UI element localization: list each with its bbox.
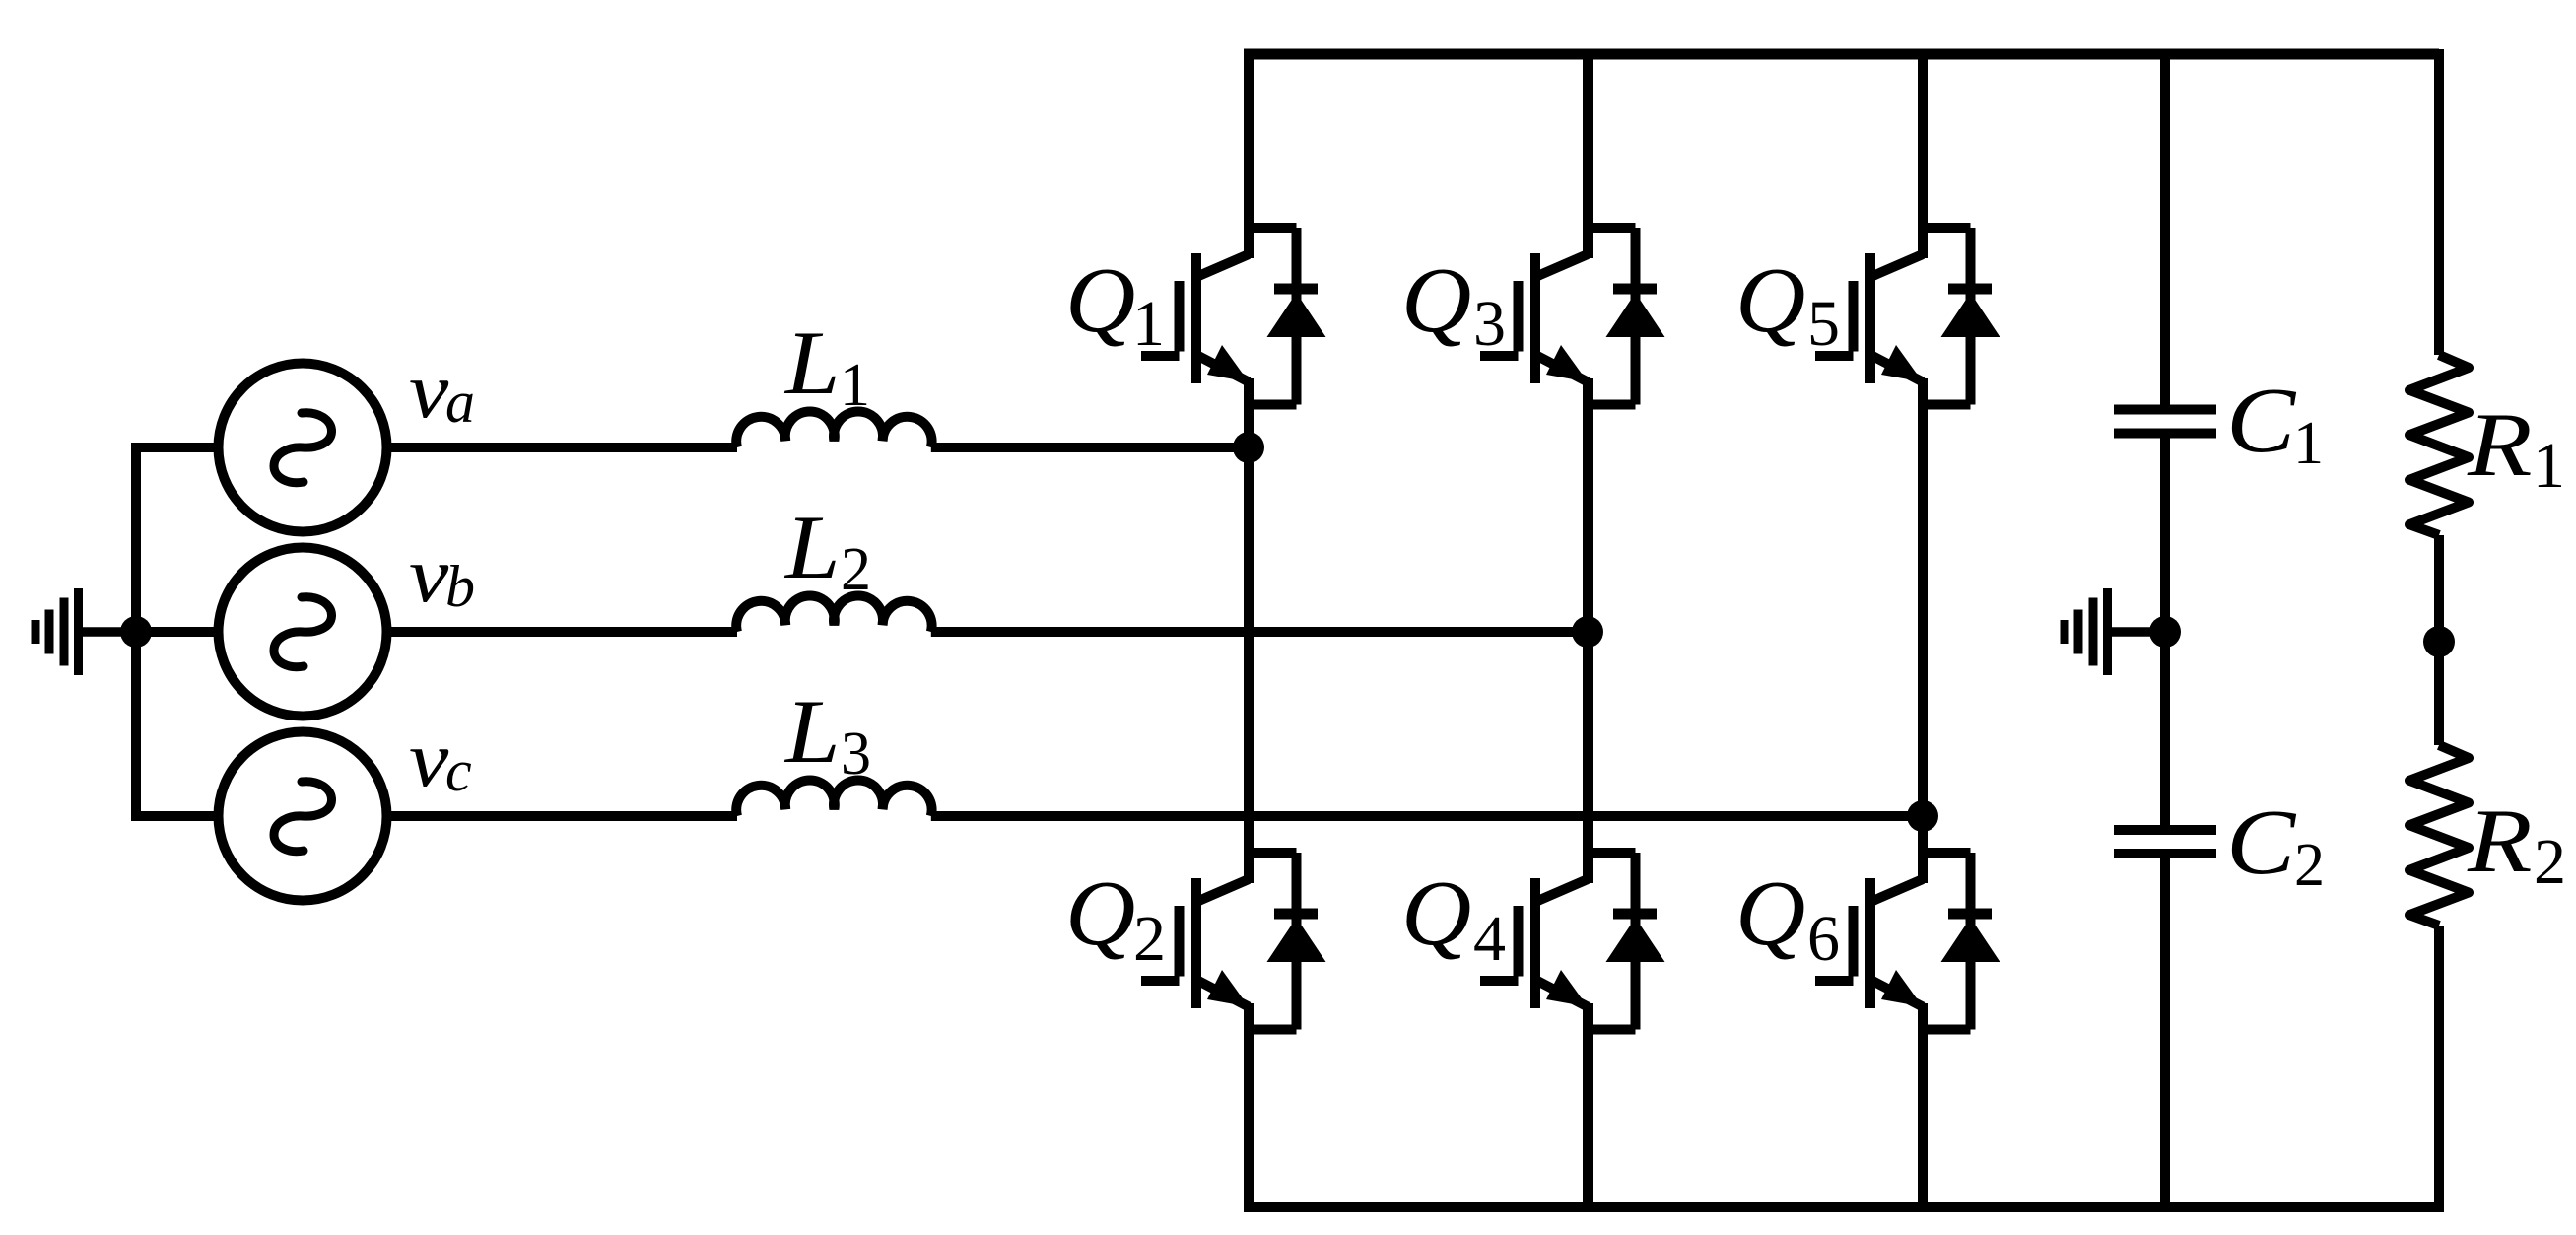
source vb (AC voltage source) <box>219 548 387 717</box>
node A (phase a junction dot) <box>1233 432 1264 463</box>
wire leg2 mid (Q3 emitter to Q4 collector) <box>1583 378 1593 883</box>
inductor L1 <box>736 412 931 447</box>
svg-text:5: 5 <box>1807 288 1840 360</box>
wire top DC bus <box>1244 49 2439 60</box>
resistor R2 <box>2409 745 2469 926</box>
svg-text:L: L <box>783 312 841 414</box>
transistor Q1 (IGBT with antiparallel diode) <box>1141 228 1326 405</box>
svg-text:Q: Q <box>1401 248 1471 351</box>
svg-text:2: 2 <box>1133 903 1166 975</box>
label R2 <box>2467 790 2566 898</box>
node N (neutral junction dot) <box>120 616 152 648</box>
wire left neutral bus with stubs to va and vc <box>136 447 222 816</box>
wire L2 to node B <box>931 627 1588 637</box>
svg-text:1: 1 <box>2293 410 2324 477</box>
resistor R1 <box>2409 355 2469 535</box>
label C1 <box>2226 369 2324 477</box>
label Q6 <box>1735 861 1840 975</box>
node D (load midpoint dot) <box>2423 626 2455 657</box>
svg-text:1: 1 <box>2533 430 2565 502</box>
node M (capacitor midpoint dot) <box>2149 616 2181 648</box>
wire L1 to node A <box>931 443 1249 452</box>
svg-text:v: v <box>409 529 449 618</box>
svg-text:Q: Q <box>1735 861 1805 964</box>
inductor L3 <box>736 781 931 816</box>
wire bottom DC bus <box>1244 1202 2439 1212</box>
svg-text:C: C <box>2226 790 2297 894</box>
wire leg3 bottom (Q6 emitter to bus) <box>1918 1003 1928 1212</box>
transistor Q2 (IGBT with antiparallel diode) <box>1141 853 1326 1030</box>
inductor L2 <box>736 596 931 632</box>
capacitor C1 <box>2114 410 2216 434</box>
wire leg3 mid (Q5 emitter to Q6 collector) <box>1918 378 1928 883</box>
svg-text:L: L <box>783 681 841 783</box>
label C2 <box>2226 790 2325 899</box>
svg-text:1: 1 <box>840 352 870 419</box>
wire leg3 collector (bus to Q5) <box>1918 49 1928 258</box>
transistor Q5 (IGBT with antiparallel diode) <box>1815 228 2000 405</box>
svg-text:4: 4 <box>1473 903 1506 975</box>
wire vb to L2 <box>384 627 737 637</box>
transistor Q3 (IGBT with antiparallel diode) <box>1480 228 1665 405</box>
label Q1 <box>1065 248 1165 360</box>
wire leg1 collector (bus to Q1) <box>1244 49 1254 258</box>
svg-text:Q: Q <box>1401 861 1471 964</box>
svg-text:6: 6 <box>1807 903 1840 975</box>
svg-text:R: R <box>2467 394 2533 495</box>
svg-text:Q: Q <box>1065 248 1135 351</box>
svg-text:v: v <box>409 714 449 802</box>
svg-text:L: L <box>783 497 841 598</box>
svg-text:2: 2 <box>841 536 871 603</box>
svg-text:b: b <box>445 554 475 619</box>
wire DC-link capacitor branch top <box>2160 49 2170 405</box>
wire leg2 bottom (Q4 emitter to bus) <box>1583 1003 1593 1212</box>
transistor Q6 (IGBT with antiparallel diode) <box>1815 853 2000 1030</box>
transistor Q4 (IGBT with antiparallel diode) <box>1480 853 1665 1030</box>
wire va to L1 <box>384 443 737 452</box>
wire capacitor branch bottom <box>2160 858 2170 1213</box>
svg-text:C: C <box>2226 369 2297 472</box>
svg-text:3: 3 <box>1473 288 1506 360</box>
label Q4 <box>1401 861 1506 975</box>
wire load branch bottom <box>2434 926 2444 1212</box>
wire leg1 bottom (Q2 emitter to bus) <box>1244 1003 1254 1212</box>
label R1 <box>2467 394 2565 502</box>
svg-text:c: c <box>445 738 472 803</box>
ground (left, neutral) <box>32 588 137 675</box>
node B (phase b junction dot) <box>1572 616 1603 648</box>
node C (phase c junction dot) <box>1907 800 1938 832</box>
wire vc to L3 <box>384 811 737 821</box>
wire load branch top <box>2434 49 2444 355</box>
svg-text:v: v <box>409 345 449 434</box>
source va (AC voltage source) <box>219 364 387 532</box>
wire between C1 and C2 <box>2160 438 2170 826</box>
source vc (AC voltage source) <box>219 732 387 901</box>
svg-text:a: a <box>445 370 475 435</box>
svg-text:3: 3 <box>841 720 871 788</box>
label Q5 <box>1735 248 1840 360</box>
svg-text:1: 1 <box>1132 288 1165 360</box>
svg-text:2: 2 <box>2534 826 2566 898</box>
wire L3 to node C <box>931 811 1923 821</box>
svg-text:2: 2 <box>2294 832 2325 899</box>
svg-text:R: R <box>2467 790 2533 891</box>
wire leg2 collector (bus to Q3) <box>1583 49 1593 258</box>
wire between R1 and R2 <box>2434 535 2444 745</box>
svg-text:Q: Q <box>1735 248 1805 351</box>
capacitor C2 <box>2114 830 2216 854</box>
wire neutral stub to source vb <box>136 627 222 637</box>
wire leg1 mid (Q1 emitter to Q2 collector) <box>1244 378 1254 883</box>
ground (DC midpoint) <box>2061 588 2166 675</box>
label Q3 <box>1401 248 1506 360</box>
svg-text:Q: Q <box>1065 861 1135 964</box>
label Q2 <box>1065 861 1166 975</box>
